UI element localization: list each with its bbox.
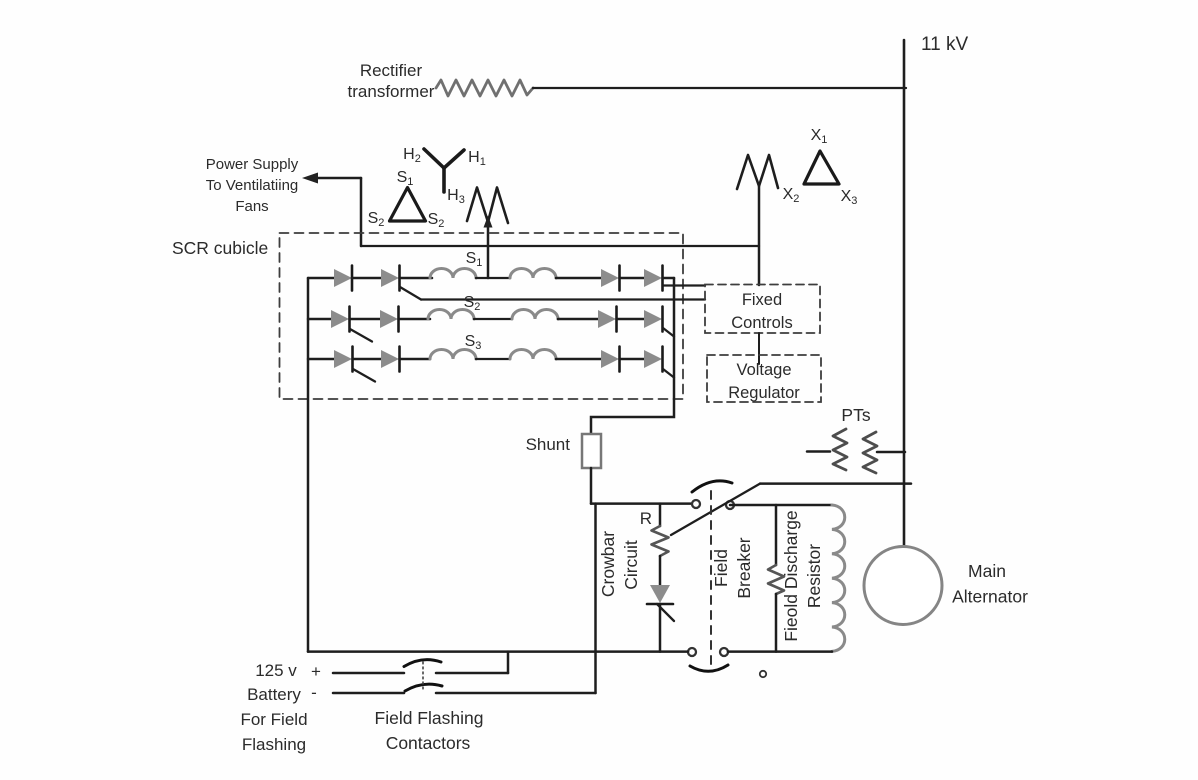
wire FDR branch bottom bbox=[775, 594, 778, 652]
svg-text:S2: S2 bbox=[368, 210, 385, 229]
svg-text:Fixed: Fixed bbox=[742, 291, 782, 309]
wire row3 e bbox=[556, 358, 601, 361]
transformer T2 secondary winding (zigzag M) bbox=[467, 188, 508, 224]
svg-text:Rectifier: Rectifier bbox=[360, 61, 423, 80]
svg-text:S1: S1 bbox=[466, 250, 483, 269]
svg-text:Battery: Battery bbox=[247, 685, 301, 704]
gate wire S2 line to Fixed Controls bbox=[400, 287, 421, 300]
wire row1 d bbox=[476, 277, 510, 279]
wire shunt to crowbar node bbox=[590, 468, 593, 504]
thyristor crowbar bbox=[650, 585, 670, 603]
SCR row3 device4 bbox=[644, 350, 662, 368]
svg-text:Alternator: Alternator bbox=[952, 587, 1028, 607]
svg-text:125 v: 125 v bbox=[255, 661, 297, 680]
svg-text:R: R bbox=[640, 509, 652, 528]
svg-text:Circuit: Circuit bbox=[621, 540, 641, 590]
resistor PT2 bbox=[863, 432, 877, 473]
wire battery plus right bbox=[436, 672, 508, 675]
svg-text:S2: S2 bbox=[464, 294, 481, 313]
inductor row3 L2 bbox=[510, 350, 556, 360]
svg-text:X1: X1 bbox=[811, 127, 828, 146]
wire row3 tick to right bus bbox=[663, 369, 674, 378]
resistor field discharge bbox=[768, 565, 784, 594]
svg-text:-: - bbox=[311, 683, 317, 702]
wire T2 secondary to SCR row 1 with up arrow bbox=[487, 224, 490, 278]
svg-text:Flashing: Flashing bbox=[242, 735, 306, 754]
svg-text:11 kV: 11 kV bbox=[921, 34, 969, 55]
transformer T2 delta symbol S1 S2 S2 bbox=[390, 188, 426, 222]
SCR row2 device4 bbox=[644, 310, 662, 328]
wire crowbar top bbox=[591, 502, 692, 505]
wire battery plus riser bbox=[507, 652, 510, 673]
wire row2 e bbox=[558, 318, 598, 321]
wire crowbar bottom bbox=[659, 604, 662, 652]
svg-text:H3: H3 bbox=[447, 187, 465, 206]
field breaker top right contact bbox=[726, 501, 734, 509]
field breaker bottom arc bbox=[690, 665, 728, 671]
field breaker bottom right contact bbox=[720, 648, 728, 656]
svg-text:Breaker: Breaker bbox=[734, 537, 754, 598]
wire battery minus riser bbox=[594, 504, 597, 693]
svg-text:S2: S2 bbox=[428, 211, 445, 230]
field breaker bottom left contact bbox=[688, 648, 696, 656]
svg-text:X2: X2 bbox=[783, 186, 800, 205]
svg-text:+: + bbox=[311, 662, 321, 681]
svg-text:Shunt: Shunt bbox=[526, 435, 571, 454]
svg-text:SCR cubicle: SCR cubicle bbox=[172, 238, 268, 258]
field breaker dashed centre line bbox=[710, 491, 712, 664]
resistor R (crowbar) bbox=[652, 526, 669, 556]
inductor row1 L2 bbox=[510, 269, 556, 279]
inductor row1 L1 bbox=[430, 269, 476, 279]
svg-text:Regulator: Regulator bbox=[728, 384, 800, 402]
wire row2 b bbox=[350, 318, 381, 321]
wire row1 b bbox=[352, 277, 381, 280]
SCR row3 device3 bbox=[601, 350, 619, 368]
wire row3 a bbox=[308, 358, 334, 361]
SCR row3 device1 bbox=[334, 350, 352, 368]
SCR row1 device3 bbox=[601, 269, 619, 287]
wire row2 tick to right bus bbox=[663, 328, 674, 337]
wire row1 e bbox=[556, 277, 601, 280]
svg-text:PTs: PTs bbox=[841, 405, 870, 425]
contactor arc plus bbox=[404, 660, 441, 667]
box Fixed Controls bbox=[705, 285, 820, 334]
inductor field winding coil bbox=[832, 505, 845, 651]
wire X winding centre tap to Fixed Controls bbox=[758, 186, 761, 285]
wire row2 c bbox=[399, 318, 431, 321]
wire row1 to right bus bbox=[663, 277, 675, 280]
inductor row2 L2 bbox=[512, 310, 558, 320]
wire row2 a bbox=[308, 318, 331, 321]
SCR row2 device2 bbox=[380, 310, 398, 328]
wire crowbar R top bbox=[659, 504, 662, 526]
node small o bbox=[760, 671, 766, 677]
contactor arc minus bbox=[405, 684, 442, 691]
SCR row3 device2 bbox=[381, 350, 399, 368]
wire row3 f bbox=[620, 358, 645, 361]
transformer T2 wye symbol H1 H2 H3 bbox=[424, 149, 464, 192]
node 11 kV bus bbox=[903, 40, 906, 547]
svg-text:S1: S1 bbox=[397, 169, 414, 188]
SCR cubicle dashed box bbox=[280, 233, 684, 399]
svg-text:Field: Field bbox=[711, 549, 731, 587]
wire right DC bus bbox=[591, 278, 674, 434]
SCR row2 device3 bbox=[598, 310, 616, 328]
svg-text:Crowbar: Crowbar bbox=[598, 531, 618, 597]
svg-text:Fans: Fans bbox=[235, 198, 268, 215]
svg-text:For Field: For Field bbox=[240, 710, 307, 729]
svg-text:X3: X3 bbox=[841, 188, 858, 207]
wire FDR branch top bbox=[775, 505, 778, 565]
transformer X delta symbol X1 X2 X3 bbox=[804, 151, 839, 184]
wire row1 c bbox=[400, 277, 433, 280]
field breaker top left contact bbox=[692, 500, 700, 508]
SCR row1 device1 bbox=[334, 269, 352, 287]
wire battery minus right bbox=[436, 692, 596, 695]
wire crowbar mid bbox=[659, 556, 662, 585]
svg-text:Main: Main bbox=[968, 561, 1006, 581]
inductor row2 L1 bbox=[428, 310, 474, 320]
wire row3 c bbox=[400, 358, 431, 361]
generator main alternator bbox=[864, 547, 942, 625]
svg-text:Controls: Controls bbox=[731, 314, 792, 332]
wire battery plus left bbox=[333, 672, 404, 675]
SCR row1 device2 bbox=[381, 269, 399, 287]
arrow to ventilating fans bbox=[312, 177, 361, 180]
box Voltage Regulator bbox=[707, 355, 821, 402]
inductor row3 L1 bbox=[430, 350, 476, 360]
wire blade to bus bbox=[760, 482, 911, 485]
wire row2 f bbox=[617, 318, 645, 321]
wire bottom right (breaker to coil) bbox=[728, 650, 832, 653]
SCR row1 device4 bbox=[644, 269, 662, 287]
svg-text:Contactors: Contactors bbox=[386, 733, 471, 753]
transformer X secondary winding (zigzag M) bbox=[737, 155, 778, 189]
svg-text:Fieold Discharge: Fieold Discharge bbox=[781, 510, 801, 641]
field breaker top arc bbox=[692, 481, 732, 492]
svg-text:Field Flashing: Field Flashing bbox=[375, 708, 484, 728]
wire row1 a bbox=[308, 277, 334, 280]
wire row3 b bbox=[353, 358, 382, 361]
wire fan feed vertical bbox=[360, 178, 363, 246]
wire fan feed horizontal bbox=[361, 245, 759, 247]
resistor PT1 bbox=[833, 429, 847, 470]
wire left DC bus bbox=[307, 278, 310, 652]
wire T1 to 11kV bus bbox=[533, 87, 906, 89]
wire bottom left loop bbox=[308, 650, 688, 653]
wire PT right stub bbox=[877, 451, 905, 454]
SCR row2 device1 bbox=[331, 310, 349, 328]
wire row2 d bbox=[474, 318, 512, 320]
svg-text:Voltage: Voltage bbox=[736, 361, 791, 379]
wire row3 d bbox=[476, 358, 510, 360]
wire row1 f bbox=[620, 277, 645, 280]
contactor dotted link bbox=[422, 662, 424, 691]
svg-text:S3: S3 bbox=[465, 333, 482, 352]
svg-text:Resistor: Resistor bbox=[804, 544, 824, 608]
wire PT left stub bbox=[807, 450, 830, 453]
wire battery minus left bbox=[333, 692, 404, 695]
transformer T1 primary winding (zigzag) bbox=[436, 80, 533, 96]
wire field circuit top bbox=[730, 504, 832, 507]
wire FC to VR bbox=[758, 333, 760, 364]
wire row1 to Fixed Controls bbox=[663, 284, 705, 286]
shunt resistor bbox=[582, 434, 601, 468]
svg-text:transformer: transformer bbox=[348, 82, 435, 101]
svg-text:H2: H2 bbox=[403, 146, 421, 165]
svg-text:Power Supply: Power Supply bbox=[206, 156, 299, 173]
svg-text:To Ventilatiing: To Ventilatiing bbox=[206, 177, 299, 194]
svg-text:H1: H1 bbox=[468, 149, 486, 168]
field breaker blade bbox=[671, 484, 760, 535]
